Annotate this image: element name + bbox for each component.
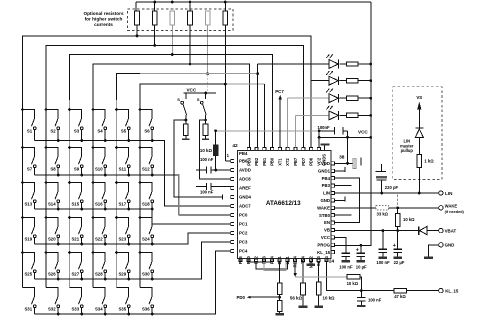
switch S34 [93,288,107,316]
switch S29 [115,251,130,280]
resistor R21 47 kOhm [394,288,407,292]
capacitor C10 100 nF (KL_15) [357,291,366,305]
IC right pin GND1 [332,169,335,172]
wire stub to R6 [224,2,226,11]
svg-text:GND: GND [445,243,455,248]
svg-text:10 kΩ: 10 kΩ [347,281,359,286]
svg-text:AVDD: AVDD [239,168,251,173]
resistor R20 10 kOhm [316,282,321,295]
IC top pin XT2 [286,147,289,150]
svg-text:10 µF: 10 µF [356,265,367,270]
switch S1 [21,108,36,140]
LED resistor R11 [340,80,347,82]
IC right pin PB3 [332,184,335,187]
svg-text:S33: S33 [71,307,79,312]
svg-text:PB5: PB5 [238,255,243,264]
switch S2 [45,108,60,142]
svg-text:S5: S5 [121,129,127,134]
svg-text:ADC8: ADC8 [239,177,251,182]
wire KL_15 net [326,262,394,291]
matrix row bus 1 [35,141,231,207]
svg-text:KL_15: KL_15 [445,288,459,293]
svg-text:S17: S17 [118,202,126,207]
optional pull-up resistor box (dashed) [128,9,234,31]
switch S32 [46,288,60,316]
matrix column bus 1 [23,36,312,288]
IC right pin LIN [332,191,335,194]
pull-up resistor R1 [135,11,140,25]
svg-text:S9: S9 [74,167,80,172]
wire link U2 (bottom pins) [256,262,287,269]
pull-up resistor R6 [223,11,228,25]
ground bar R20 [314,306,323,308]
IC bottom pin S4 [325,259,328,262]
wire stub STB0 [335,214,351,216]
LED D1 [258,54,339,68]
svg-text:WAKE: WAKE [317,205,330,210]
matrix row bus 4 [35,233,231,244]
IC left pin AVDD [231,168,234,171]
IC left pin GND4 [231,195,234,198]
pull-up resistor R5 [205,11,210,25]
resistor R9 10 kOhm (AVDD filter, filled body) [213,145,218,156]
ground bar divider [275,313,284,315]
LED resistor R10 [340,63,347,65]
svg-text:LIN: LIN [445,191,453,196]
IC bottom pin DU1 [286,259,289,262]
svg-text:PD7: PD7 [301,157,306,166]
node PD0 with arrow [279,294,281,300]
svg-text:PB2: PB2 [254,157,259,166]
wire bottom pin to divider [279,262,281,283]
wire LIN net [335,192,439,194]
svg-text:VCC: VCC [321,235,330,240]
svg-text:VDD: VDD [321,161,330,166]
svg-text:VS: VS [416,95,422,100]
wire R22 to KL_15 node [360,277,361,291]
matrix column bus 4 [93,64,250,288]
matrix column bus 5 [116,100,118,288]
svg-text:100 nF: 100 nF [200,157,214,162]
wire VB net [335,230,419,232]
wire R6 to bus 6 [224,25,226,84]
LED resistor R13 [340,114,347,116]
IC top pin PD6 [310,147,313,150]
IC bottom pin DT2 [255,259,258,262]
ground bar C8 [342,260,351,262]
svg-text:38: 38 [339,154,345,160]
wire R16 to VB net [397,227,399,231]
switch S28 [92,251,107,280]
IC left pin PC4 [231,249,234,252]
wire R1 to bus 1 [136,25,138,36]
svg-text:PC7: PC7 [275,89,284,94]
svg-text:PC2: PC2 [239,231,248,236]
svg-text:47 kΩ: 47 kΩ [394,294,406,299]
svg-text:GND1: GND1 [318,168,331,173]
switch S31 [23,288,37,315]
pull-up resistor R2 [152,11,157,25]
direct key switch S37 [177,93,186,124]
switch S8 [45,146,60,176]
switch S15 [68,181,83,210]
switch S13 [21,181,36,209]
svg-text:10 kΩ: 10 kΩ [200,148,213,153]
resistor R16 10 kOhm [397,208,399,214]
junction dot [171,1,174,4]
terminal KL_15 [439,288,443,292]
svg-text:for higher switch: for higher switch [85,17,123,22]
svg-text:S10: S10 [95,167,103,172]
svg-text:PB4: PB4 [322,176,331,181]
wire 10k to LIN (optional grey) [397,195,399,208]
svg-text:S1: S1 [27,129,33,134]
svg-text:S12: S12 [142,167,150,172]
IC left pin PB6 [231,159,234,162]
pull-up resistor R3 [170,11,175,25]
IC left pin ADC8 [231,177,234,180]
svg-text:10 kΩ: 10 kΩ [403,217,415,222]
ground bar above GNDS pin [324,145,326,150]
IC top pin PB2 [255,147,258,150]
switch S22 [92,216,107,245]
IC right pin KL_15 [332,251,335,254]
wire VCC grey line [216,130,320,132]
matrix column bus 2 [46,45,304,287]
svg-text:100 nF: 100 nF [376,260,390,265]
matrix row bus 5 [35,242,231,279]
wire MODE net (grey) with arrow [294,262,296,274]
switch S35 [117,288,131,316]
svg-text:ADC7: ADC7 [239,204,251,209]
svg-text:PB7: PB7 [293,157,298,166]
svg-text:PC0: PC0 [239,213,248,218]
wire key branch 2 tap to pin ADC8 [204,119,207,122]
svg-text:PROG: PROG [317,242,330,247]
svg-text:S25: S25 [24,272,32,277]
svg-text:S27: S27 [71,272,79,277]
IC bottom pin REG4 [294,259,297,262]
svg-text:S30: S30 [142,272,150,277]
capacitor C6 100 nF (VB) [379,229,388,256]
IC bottom pin MCG2 [309,259,312,262]
ground tick on GND pin [335,199,344,201]
svg-text:22 µF: 22 µF [394,260,405,265]
terminal LIN [439,191,443,195]
wire stub to R4 [189,2,191,11]
IC top pin PB1 [263,147,266,150]
wire bus6 to pin PB6 [224,84,226,161]
switch S16 [92,181,107,210]
LED D2 [311,71,338,85]
IC right pin PB4 [332,177,335,180]
switch S10 [92,146,107,176]
matrix row bus 2 [35,175,231,215]
capacitor C7 22 uF (VB, electrolytic) [393,231,402,257]
wire VCC corner to top pin [318,131,320,148]
svg-text:S16: S16 [95,202,103,207]
switch S17 [115,181,130,210]
svg-text:PB1: PB1 [262,157,267,166]
wire key branch 1 tap to pin GND4 [185,119,188,122]
switch S11 [115,146,130,176]
IC right pin VB [332,228,335,231]
svg-text:MCG2: MCG2 [308,255,313,268]
IC right pin PROG [332,243,335,246]
wire PB4 to EN [335,178,359,222]
svg-text:24: 24 [329,258,335,264]
svg-text:S3: S3 [74,129,80,134]
switch S25 [21,251,36,279]
ground tick on GND4 pin [222,194,224,199]
svg-text:100nF: 100nF [318,125,331,130]
svg-text:S34: S34 [95,307,103,312]
wire stub PB3 [335,185,352,187]
svg-text:VCC: VCC [358,130,368,135]
LED supply rail wire [335,2,371,245]
ground bar R19 [299,306,308,308]
switch S30 [139,251,154,280]
IC bottom pin SL13 [317,259,320,262]
IC bottom pin TN4 [301,259,304,262]
svg-text:(if needed): (if needed) [445,210,465,214]
IC right pin WAKE [332,206,335,209]
resistor R22 10 kOhm (MODE) [347,275,360,279]
wire stub to R2 [154,2,156,11]
svg-text:pullup: pullup [401,148,414,153]
switch S33 [70,288,84,316]
svg-text:PB0: PB0 [270,157,275,166]
svg-text:1 kΩ: 1 kΩ [424,159,434,164]
net arrow PC7 [279,99,281,148]
wire VCC grey line to R9 [215,131,217,145]
wire bottom pin to R20 [318,262,320,282]
capacitor C8 100 nF (VCC) [342,253,351,260]
key pull resistor R7 [184,124,189,136]
wire R9 to AVDD net [215,156,217,171]
LED D3 [288,88,339,102]
IC left pin PC1 [231,222,234,225]
svg-text:10 kΩ: 10 kΩ [323,296,336,301]
IC left pin PC3 [231,240,234,243]
svg-text:EN: EN [324,220,330,225]
IC top pin PD7 [302,147,305,150]
matrix column bus 6 [140,84,227,287]
capacitor C9 10 uF (electrolytic) [356,247,365,260]
wire R4 to bus 4 [189,25,191,64]
IC left pin AREF [231,186,234,189]
ground stub bottom pin [310,262,312,264]
svg-text:S23: S23 [118,237,126,242]
switch S5 [115,108,130,142]
capacitor C5 220 pF (LIN) [375,164,387,194]
ground bar (GND terminal) [424,257,433,259]
IC top pin PB3 [247,147,250,150]
switch S23 [115,216,130,245]
switch S7 [21,146,36,175]
IC top pin PB0 [271,147,274,150]
wire VCC line to LED rail [319,136,371,138]
IC top pin XT1 [278,147,281,150]
matrix row bus 3 [35,209,231,224]
wire GND terminal to ground [429,245,439,257]
svg-text:STB0: STB0 [319,213,331,218]
IC right pin STB0 [332,214,335,217]
capacitor C4 (VDD reservoir) [335,158,361,169]
svg-text:VBAT: VBAT [445,228,457,233]
wire PROG pin with 10uF [360,244,363,247]
IC top pin VC2 [317,147,320,150]
svg-text:PB4: PB4 [239,151,248,156]
key branch VCC rail wire [184,92,217,94]
svg-text:33 kΩ: 33 kΩ [377,211,389,216]
wire stub to R1 [135,2,137,11]
svg-text:100 nF: 100 nF [339,265,353,270]
ground bar C10 [357,305,366,307]
svg-text:LIN: LIN [323,191,330,196]
svg-text:GND: GND [320,198,330,203]
IC top pin PB7 [294,147,297,150]
IC right pin VCC [332,236,335,239]
svg-text:100 nF: 100 nF [368,298,382,303]
svg-text:S14: S14 [48,202,56,207]
switch S26 [45,251,60,280]
wire link U3 (bottom pins, grey) [264,262,286,271]
resistor R17 (divider top) [277,283,282,294]
wire R5 column to VCC rail (faint) [206,75,208,93]
svg-text:+: + [356,247,359,253]
switch S19 [21,216,36,244]
wire bottom pin to R19 [302,262,304,283]
switch S24 [139,216,154,245]
svg-text:S: S [177,97,180,102]
IC bottom pin PD3 [262,259,265,262]
terminal GND [439,243,443,247]
direct key switch S38 [197,93,206,124]
terminal VBAT [439,228,443,232]
svg-text:PB3: PB3 [246,157,251,166]
matrix row bus 6 [35,251,231,314]
wire LED row1 to top pin [257,64,259,148]
IC bottom pin PD4 [270,259,273,262]
wire link U1 (bottom pins) [248,261,271,264]
switch S21 [68,216,83,245]
ground tick on GND1 pin [335,170,344,172]
svg-text:S4: S4 [97,129,103,134]
svg-text:S2: S2 [50,129,56,134]
svg-text:220 pF: 220 pF [385,185,399,190]
ground bar pin GND [307,264,316,266]
IC left pin ADC7 [231,204,234,207]
svg-text:VCC: VCC [186,88,196,93]
svg-text:GND4: GND4 [239,195,252,200]
svg-text:PC3: PC3 [239,240,248,245]
svg-text:Optional resistors: Optional resistors [83,11,124,16]
svg-text:currents: currents [94,22,113,27]
svg-text:S22: S22 [95,237,103,242]
wire pullup to LIN [418,168,420,194]
svg-text:S7: S7 [27,167,33,172]
IC bottom pin BU1 [278,259,281,262]
svg-text:KL_15: KL_15 [317,250,331,255]
wire R2 to bus 2 [154,25,156,45]
svg-text:WAKE: WAKE [445,204,458,209]
switch S18 [139,181,154,210]
switch S20 [45,216,60,245]
key pull resistor R8 [203,124,208,136]
resistor R18 (divider bottom) [277,300,282,311]
svg-text:PD0: PD0 [236,295,245,300]
svg-text:S11: S11 [119,167,127,172]
svg-text:S: S [197,97,200,102]
svg-text:S8: S8 [50,167,56,172]
terminal WAKE [439,206,443,210]
wire LED row3 corner (grey) [287,98,289,147]
ground bar C9 [357,260,366,262]
svg-text:XT1: XT1 [277,158,282,166]
wire LED row4 corner (grey) [295,115,297,147]
svg-text:S26: S26 [48,272,56,277]
svg-text:S15: S15 [71,202,79,207]
capacitor C2 100 nF (AREF) [196,183,231,190]
svg-text:S20: S20 [48,237,56,242]
IC left pin PC2 [231,231,234,234]
svg-text:S19: S19 [24,237,32,242]
switch S6 [139,108,154,142]
VS arrow [418,109,420,124]
capacitor C3 100 nF (VCC decoupling) [319,127,347,135]
junction dot VCC/cap [318,129,321,132]
svg-text:56 kΩ: 56 kΩ [290,296,303,301]
svg-text:S13: S13 [24,202,32,207]
switch S12 [139,146,154,176]
svg-text:S28: S28 [95,272,103,277]
ground bar key branch 1 [185,136,187,139]
LED resistor R12 [340,97,347,99]
switch S14 [45,181,60,210]
resistor R19 56 kOhm [301,283,306,295]
svg-text:AREF: AREF [239,186,251,191]
svg-text:PB3: PB3 [322,183,331,188]
ground bar key branch 2 [205,136,207,139]
switch S4 [92,108,107,142]
matrix column bus 3 [69,100,71,288]
diode D6 (reverse protection) [419,226,439,234]
ground bar C7 [393,256,402,258]
wire WAKE net [335,207,376,209]
wire cap to VDD pin [347,131,349,164]
svg-text:PC4: PC4 [239,249,248,254]
ground bar C6 [379,256,388,258]
IC bottom pin PB5 [239,259,242,262]
pull-up resistor R4 [188,11,193,25]
resistor R14 1 kOhm [417,155,422,168]
svg-text:S4: S4 [324,255,329,261]
IC right pin EN [332,221,335,224]
LED D4 [296,106,339,120]
resistor R15 33 kOhm (optional, dashed) [376,206,389,210]
IC left pin PC0 [231,213,234,216]
svg-text:PD4: PD4 [269,255,274,264]
switch S27 [68,251,83,280]
wire R3 to bus 3 [171,25,173,55]
svg-text:PB0: PB0 [246,255,251,264]
svg-text:PD6: PD6 [309,157,314,166]
svg-text:100 nF: 100 nF [200,189,214,194]
svg-text:S31: S31 [24,307,32,312]
svg-text:S24: S24 [142,237,150,242]
svg-text:S29: S29 [118,272,126,277]
